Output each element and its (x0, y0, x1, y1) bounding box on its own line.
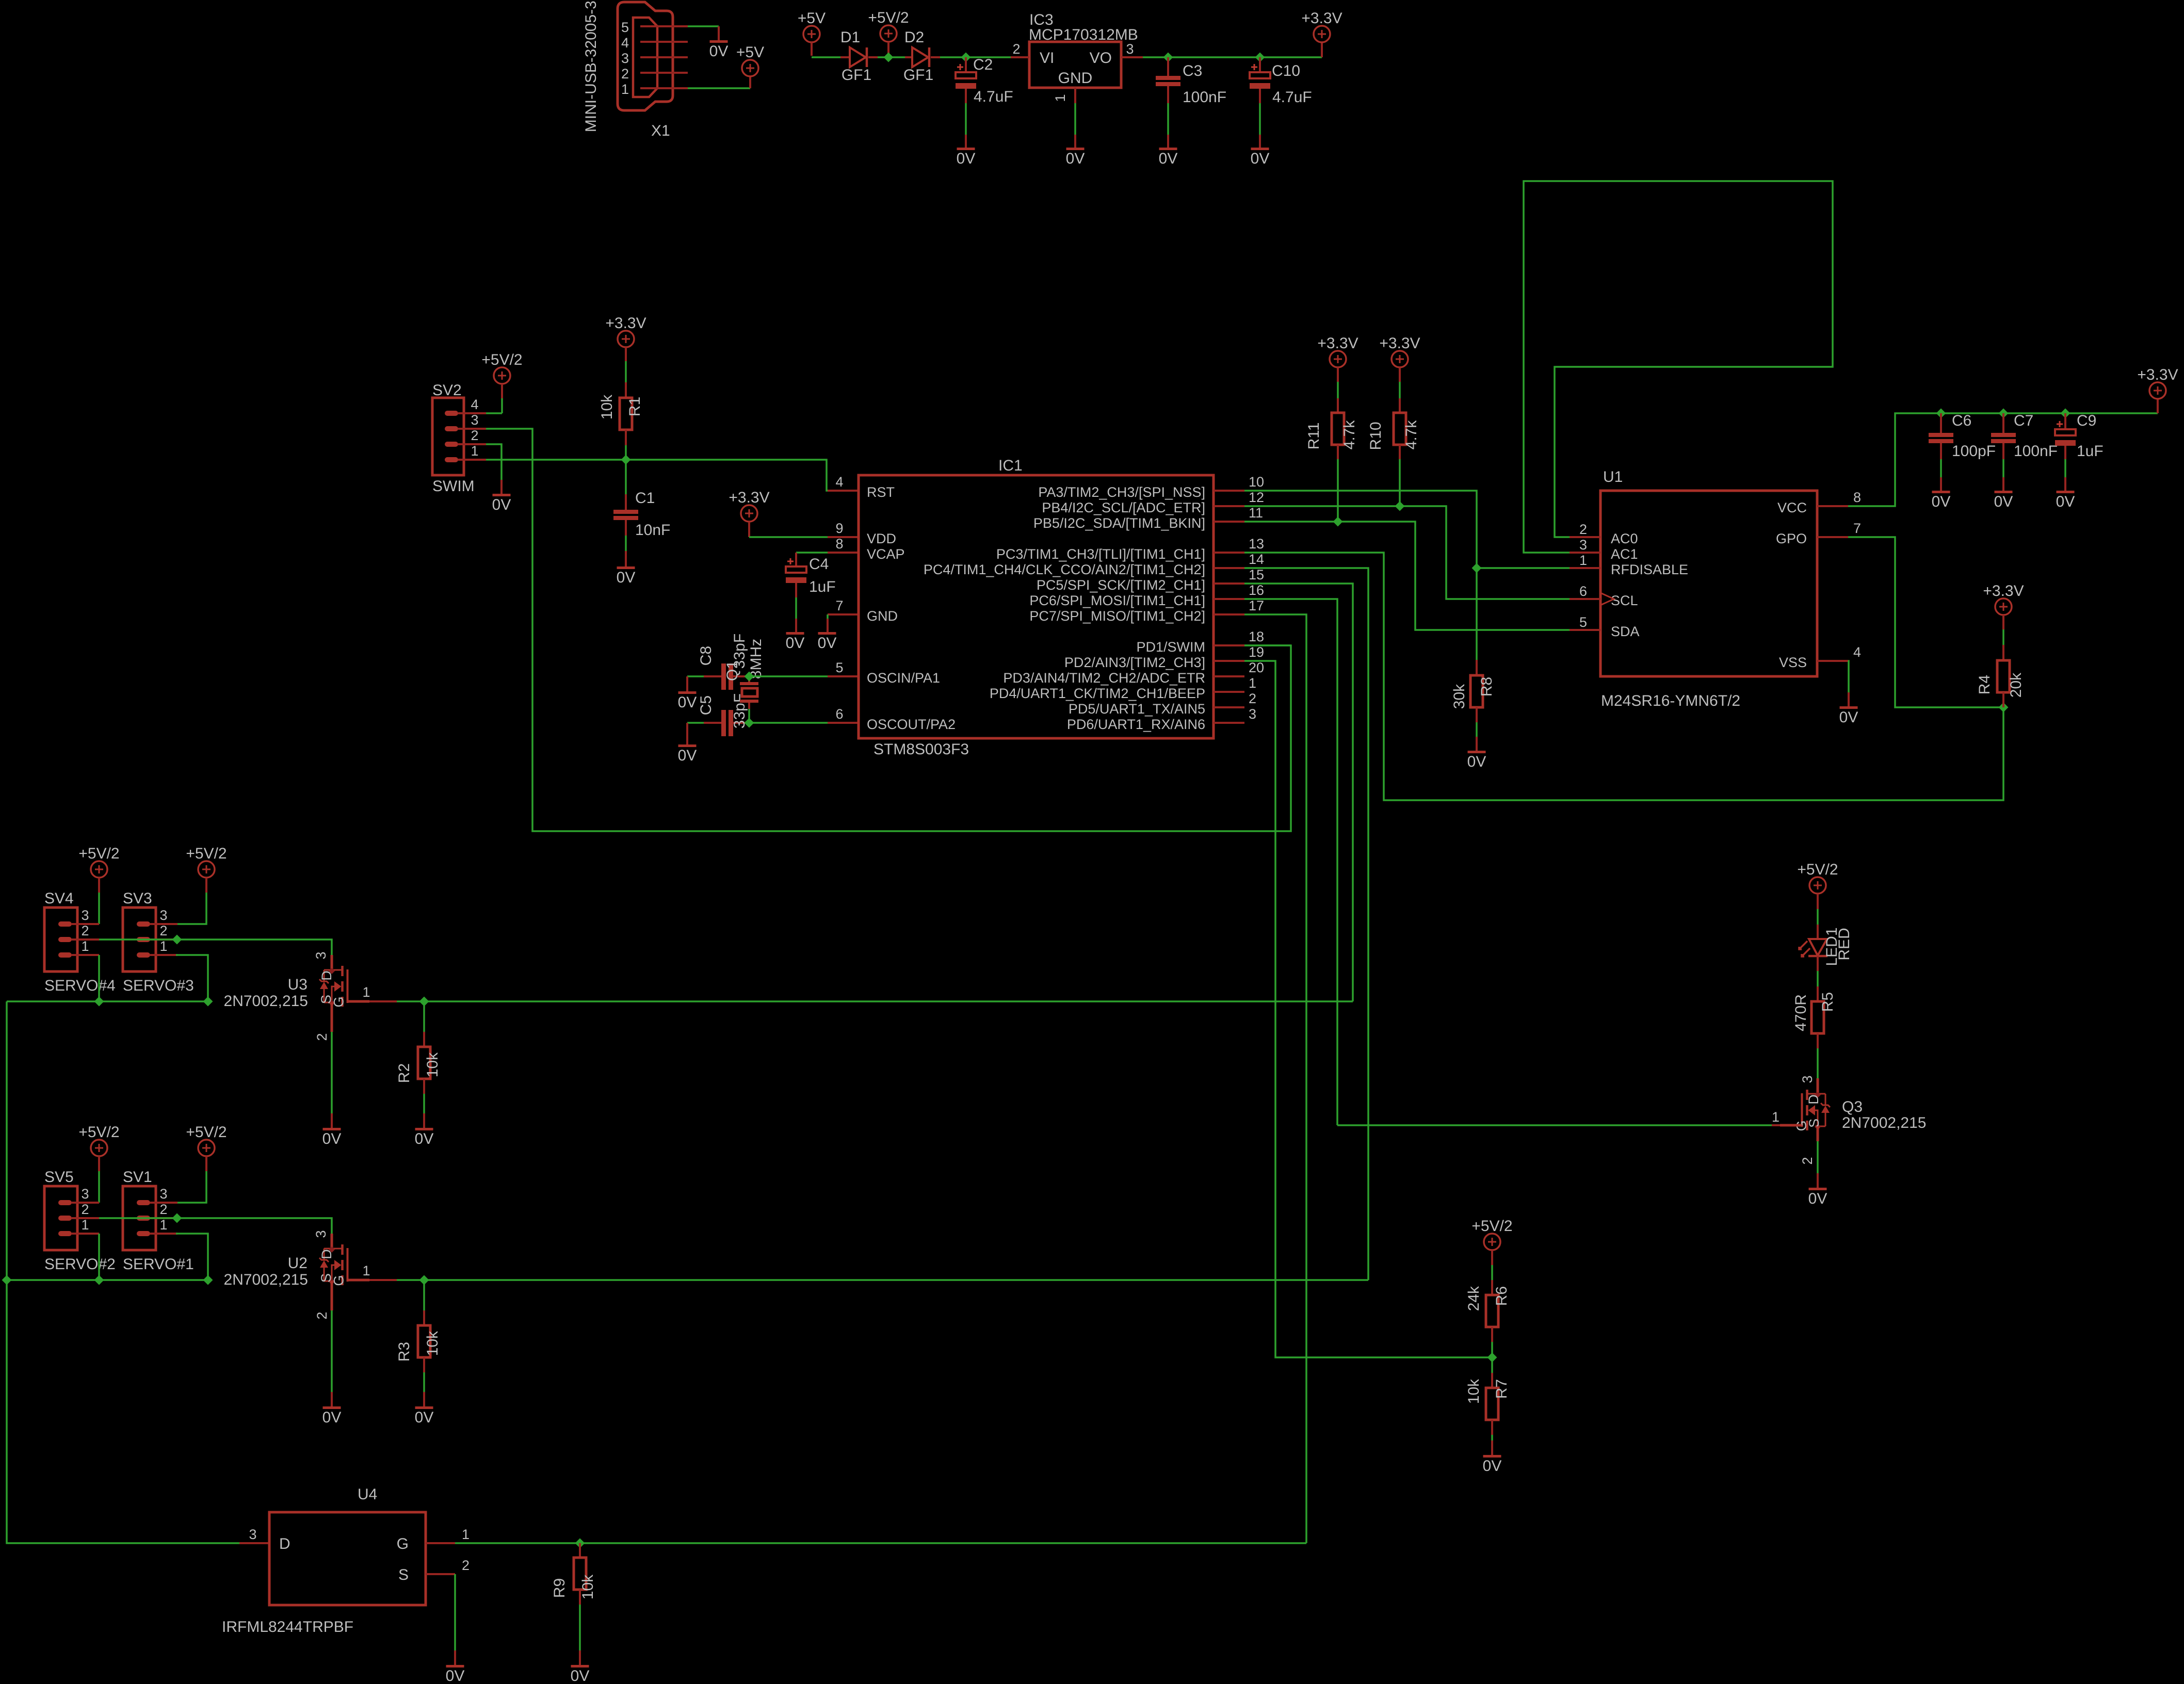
svg-text:20: 20 (1249, 660, 1264, 675)
wire X1 pin1 to +5V (688, 87, 750, 89)
svg-text:Q3: Q3 (1842, 1098, 1863, 1115)
connector SV2 SWIM (432, 398, 464, 475)
svg-text:6: 6 (1579, 584, 1587, 599)
svg-text:GPO: GPO (1776, 531, 1807, 546)
svg-text:4: 4 (835, 474, 843, 490)
svg-text:+3.3V: +3.3V (605, 315, 646, 332)
svg-text:10nF: 10nF (635, 522, 670, 539)
ground 0V below R8 (1468, 751, 1486, 753)
svg-text:IC1: IC1 (998, 457, 1023, 474)
resistor R1 10k (625, 382, 627, 398)
junction C3 node (1163, 53, 1173, 62)
svg-text:20k: 20k (2008, 672, 2025, 698)
svg-text:D1: D1 (840, 29, 860, 46)
svg-text:0V: 0V (678, 694, 697, 711)
junction SV4 pin1 net (94, 997, 104, 1007)
svg-text:M24SR16-YMN6T/2: M24SR16-YMN6T/2 (1601, 692, 1740, 709)
svg-text:2: 2 (1800, 1157, 1815, 1164)
svg-text:0V: 0V (818, 635, 837, 652)
capacitor C1 10nF (625, 460, 627, 494)
SV2 pin 3 (445, 426, 458, 431)
svg-text:470R: 470R (1792, 994, 1809, 1031)
svg-text:VI: VI (1040, 50, 1054, 67)
svg-text:SCL: SCL (1611, 593, 1638, 608)
svg-text:1: 1 (362, 984, 370, 1000)
svg-text:0V: 0V (1251, 150, 1270, 167)
SV2 pin 1 (445, 457, 458, 462)
capacitor C3 100nF (1167, 57, 1169, 76)
junction C7 node (1999, 409, 2009, 418)
junction SV3 pin2 (172, 935, 182, 945)
svg-text:3: 3 (249, 1527, 256, 1542)
connector SV1 SERVO#1 (123, 1186, 156, 1250)
SV2 pin 4 (445, 411, 458, 416)
ground 0V below R2 (415, 1128, 433, 1130)
svg-text:1: 1 (471, 443, 478, 459)
NFC IC U1 M24SR16-YMN6T/2 body (1600, 491, 1817, 676)
svg-text:PD5/UART1_TX/AIN5: PD5/UART1_TX/AIN5 (1069, 701, 1205, 717)
svg-text:D: D (319, 1249, 334, 1259)
wire servo row2 gnd-switch net (7, 1279, 208, 1281)
svg-text:D: D (319, 970, 334, 981)
svg-text:SV5: SV5 (44, 1169, 74, 1186)
svg-text:0V: 0V (1808, 1190, 1827, 1207)
wire servo row1 signal to U3 drain (99, 940, 332, 955)
svg-text:4.7k: 4.7k (1341, 420, 1358, 450)
wire SV4 pin1 down to gnd-switch net (98, 955, 100, 1001)
supply +3.3V right of C10 (1321, 42, 1323, 57)
svg-text:+5V/2: +5V/2 (481, 351, 522, 368)
ground 0V below R3 (415, 1406, 433, 1409)
svg-text:S: S (398, 1566, 409, 1583)
wire U1 AC1 antenna loop (1524, 181, 1833, 553)
svg-text:C1: C1 (635, 490, 655, 507)
svg-text:2: 2 (1579, 522, 1587, 537)
svg-text:2: 2 (471, 428, 478, 443)
LED LED1 RED (1817, 925, 1819, 939)
svg-text:SV4: SV4 (44, 890, 74, 907)
svg-text:3: 3 (313, 1230, 329, 1238)
svg-text:8: 8 (1853, 490, 1861, 505)
svg-text:2: 2 (159, 1202, 167, 1217)
junction R2 gate node (419, 997, 429, 1007)
svg-text:2: 2 (81, 923, 89, 938)
junction C2 node (961, 53, 971, 62)
svg-text:R5: R5 (1819, 992, 1836, 1012)
junction R3 gate node (419, 1275, 429, 1285)
ground 0V below C8 (686, 676, 688, 691)
svg-text:C2: C2 (973, 56, 993, 73)
svg-text:10k: 10k (424, 1331, 441, 1356)
svg-text:0V: 0V (678, 747, 697, 764)
wire U3 gate to R2 node and PC5 line (397, 1000, 1353, 1002)
junction RST node at R1/C1 (621, 455, 631, 465)
svg-text:4.7k: 4.7k (1403, 420, 1420, 450)
resistor R11 4.7k (1337, 398, 1339, 413)
svg-text:PC4/TIM1_CH4/CLK_CCO/AIN2/[TIM: PC4/TIM1_CH4/CLK_CCO/AIN2/[TIM1_CH2] (924, 562, 1205, 577)
svg-text:2: 2 (462, 1558, 470, 1573)
svg-text:19: 19 (1249, 644, 1264, 660)
svg-text:PB4/I2C_SCL/[ADC_ETR]: PB4/I2C_SCL/[ADC_ETR] (1042, 500, 1205, 515)
svg-text:7: 7 (835, 598, 843, 613)
ground 0V below IC1 GND (818, 632, 836, 635)
svg-text:4: 4 (621, 35, 629, 51)
supply +3.3V above R10 (1392, 351, 1408, 367)
wire SV5 pin1 down (98, 1234, 100, 1280)
svg-text:2: 2 (81, 1202, 89, 1217)
resistor R2 10k (423, 1001, 425, 1032)
U4 pin 1 G (426, 1542, 455, 1544)
svg-text:+5V: +5V (798, 10, 826, 27)
svg-text:+3.3V: +3.3V (729, 489, 769, 506)
svg-text:3: 3 (471, 412, 478, 428)
svg-text:R2: R2 (396, 1063, 413, 1083)
svg-text:0V: 0V (571, 1667, 590, 1684)
svg-text:X1: X1 (651, 122, 670, 139)
svg-text:+5V/2: +5V/2 (78, 1124, 119, 1141)
transistor U3 2N7002,215 (331, 955, 333, 969)
svg-text:RST: RST (867, 484, 895, 500)
supply +5V/2 above SV5 (91, 1140, 107, 1156)
svg-text:D: D (1806, 1094, 1821, 1105)
junction R9 node (575, 1539, 585, 1548)
capacitor C2 4.7uF (965, 57, 967, 72)
svg-text:AC0: AC0 (1611, 531, 1638, 546)
svg-text:OSCOUT/PA2: OSCOUT/PA2 (867, 717, 956, 732)
ground 0V below C10 (1251, 148, 1269, 150)
wire pin18 PD1/SWIM stub (1244, 644, 1291, 646)
connector SV4 SERVO#4 (44, 908, 77, 971)
svg-text:R11: R11 (1305, 423, 1322, 450)
svg-text:0V: 0V (957, 150, 976, 167)
svg-text:SERVO#3: SERVO#3 (123, 977, 194, 994)
svg-text:30k: 30k (1451, 684, 1468, 709)
wire pin17 PC7 to U4 gate net (1244, 614, 1306, 1543)
U1 right pin stubs (1817, 505, 1848, 507)
resistor R8 30k (1476, 660, 1478, 675)
svg-text:10: 10 (1249, 474, 1264, 490)
resistor R7 10k (1491, 1357, 1493, 1373)
diode D2 GF1 (905, 56, 912, 58)
svg-text:0V: 0V (446, 1667, 465, 1684)
wire pin15 PC5 to servo row1 gate net (1244, 584, 1353, 1001)
junction SV1 pin1 net (203, 1275, 213, 1285)
capacitor C10 4.7uF (1259, 57, 1261, 72)
svg-text:VSS: VSS (1779, 655, 1807, 670)
wire pin13 PC3 to GPO/R4 net (1244, 553, 2003, 800)
svg-text:12: 12 (1249, 490, 1264, 505)
svg-text:0V: 0V (1159, 150, 1178, 167)
junction R4 node (1999, 703, 2009, 713)
svg-text:3: 3 (621, 51, 629, 66)
svg-text:1: 1 (362, 1263, 370, 1278)
svg-text:PD4/UART1_CK/TIM2_CH1/BEEP: PD4/UART1_CK/TIM2_CH1/BEEP (990, 686, 1205, 701)
ground 0V below SV2 (493, 494, 511, 496)
svg-text:+3.3V: +3.3V (1379, 335, 1420, 352)
svg-text:3: 3 (159, 908, 167, 923)
transistor Q3 2N7002,215 (1817, 1078, 1819, 1093)
svg-text:2: 2 (1249, 691, 1256, 706)
svg-text:1: 1 (1579, 553, 1587, 568)
svg-text:9: 9 (835, 521, 843, 536)
svg-text:R4: R4 (1976, 675, 1993, 694)
connector SV3 SERVO#3 (123, 908, 156, 971)
svg-text:R9: R9 (551, 1578, 568, 1598)
wire SV2 pin2 to ground (486, 444, 501, 480)
wire pin16 PC6 to Q3 gate net (1244, 599, 1337, 1125)
svg-text:0V: 0V (415, 1130, 434, 1147)
svg-text:SWIM: SWIM (432, 478, 475, 495)
wire pin19 PD2 to R6/R7 divider (1244, 661, 1492, 1357)
wire pin14 PC4 to servo row2 gate net (1244, 568, 1368, 1280)
svg-text:8: 8 (835, 536, 843, 552)
resistor R3 10k (423, 1280, 425, 1310)
svg-text:U2: U2 (288, 1255, 308, 1272)
svg-text:PD2/AIN3/[TIM2_CH3]: PD2/AIN3/[TIM2_CH3] (1064, 655, 1205, 670)
svg-text:SDA: SDA (1611, 624, 1640, 639)
svg-text:MINI-USB-32005-301: MINI-USB-32005-301 (583, 0, 600, 132)
ground 0V below IC3 (1066, 148, 1085, 150)
ground 0V below C7 (1995, 491, 2013, 493)
ground 0V below C9 (2057, 491, 2075, 493)
svg-text:D: D (279, 1535, 290, 1552)
junction C10 node (1255, 53, 1265, 62)
wire VDD (749, 536, 828, 538)
wire SV2 pin3 SWIM net down (486, 429, 1291, 831)
svg-text:1: 1 (1772, 1109, 1779, 1125)
svg-text:PD1/SWIM: PD1/SWIM (1136, 639, 1205, 655)
wire U4 gate net to IC1 pin17 (455, 1542, 1306, 1544)
svg-text:VCC: VCC (1777, 500, 1807, 515)
ground 0V below VSS (1840, 706, 1858, 709)
ground 0V below U3 (323, 1128, 341, 1130)
regulator IC3 MCP170312MB (1029, 42, 1121, 88)
svg-text:2: 2 (1012, 41, 1020, 57)
svg-text:C7: C7 (2014, 412, 2033, 429)
svg-text:SV1: SV1 (123, 1169, 152, 1186)
ground 0V below C4 (786, 632, 804, 635)
junction C9 node (2061, 409, 2070, 418)
capacitor C5 33pF (721, 710, 726, 736)
svg-text:1: 1 (159, 938, 167, 954)
capacitor C9 1uF (2064, 413, 2066, 429)
diode D1 GF1 (840, 56, 850, 58)
svg-text:0V: 0V (617, 569, 636, 586)
svg-text:2N7002,215: 2N7002,215 (1842, 1114, 1926, 1131)
svg-text:1: 1 (1053, 94, 1068, 102)
svg-text:+3.3V: +3.3V (2137, 366, 2178, 383)
svg-text:0V: 0V (1994, 493, 2013, 510)
svg-text:2N7002,215: 2N7002,215 (224, 1271, 308, 1288)
svg-text:SV2: SV2 (432, 382, 462, 399)
svg-text:+3.3V: +3.3V (1983, 582, 2024, 600)
capacitor C7 100nF (2002, 413, 2004, 433)
ground 0V at X1 (710, 40, 728, 43)
svg-text:2: 2 (621, 66, 629, 82)
junction +5V/2 node (884, 53, 894, 62)
capacitor C6 100pF (1940, 413, 1942, 433)
svg-text:3: 3 (81, 1186, 89, 1202)
X1 pin 4 (640, 41, 688, 43)
X1 pin 3 (640, 56, 688, 58)
svg-text:14: 14 (1249, 552, 1264, 567)
ground 0V below C5 (686, 723, 688, 744)
svg-text:+5V/2: +5V/2 (1797, 861, 1838, 878)
IC1 right pin stubs and numbers (1214, 490, 1244, 492)
wire U1 GPO to R4 node (1848, 537, 2003, 707)
svg-text:24k: 24k (1465, 1286, 1482, 1311)
svg-text:0V: 0V (1066, 150, 1085, 167)
ground 0V below C3 (1159, 148, 1177, 150)
wire SV2 pin4 to +5V/2 (486, 412, 502, 414)
wire pin10 PA3 to RFDISABLE and R8 (1244, 491, 1477, 675)
junction RFDISABLE node (1472, 563, 1482, 573)
wire to OSCOUT pin 6 (749, 722, 828, 724)
svg-text:G: G (331, 996, 347, 1007)
svg-text:3: 3 (313, 951, 329, 959)
wire to OSCIN pin 5 (749, 675, 828, 677)
svg-text:+5V/2: +5V/2 (78, 845, 119, 862)
svg-text:SERVO#4: SERVO#4 (44, 977, 116, 994)
svg-text:13: 13 (1249, 536, 1264, 552)
svg-text:5: 5 (835, 660, 843, 675)
wire X1 pin5 to ground (688, 25, 719, 27)
wire U1 VSS to ground (1848, 661, 1849, 692)
IC3 pin 1 GND (1074, 88, 1076, 103)
resistor R9 10k (579, 1543, 581, 1558)
svg-text:PC7/SPI_MISO/[TIM1_CH2]: PC7/SPI_MISO/[TIM1_CH2] (1029, 608, 1205, 624)
wire far-left gnd-switch vertical to U4 drain (7, 1001, 239, 1543)
svg-text:+5V: +5V (736, 44, 764, 61)
svg-text:10k: 10k (1465, 1379, 1482, 1404)
svg-text:R8: R8 (1478, 677, 1495, 697)
svg-text:4: 4 (471, 397, 478, 412)
supply +5V/2 above SV1 (198, 1140, 215, 1156)
svg-text:U1: U1 (1603, 468, 1623, 485)
supply +3.3V above R4 (1995, 598, 2012, 615)
svg-text:IRFML8244TRPBF: IRFML8244TRPBF (222, 1618, 353, 1636)
svg-text:0V: 0V (415, 1409, 434, 1426)
ground 0V below C6 (1932, 491, 1950, 493)
svg-text:SV3: SV3 (123, 890, 152, 907)
supply +5V/2 (880, 25, 897, 42)
ground 0V below U2 (323, 1406, 341, 1409)
junction C6 node (1936, 409, 1946, 418)
svg-text:R10: R10 (1367, 422, 1384, 450)
ground 0V below U4 source (446, 1665, 464, 1667)
svg-text:11: 11 (1249, 505, 1263, 521)
svg-text:OSCIN/PA1: OSCIN/PA1 (867, 670, 940, 686)
svg-text:1: 1 (462, 1527, 470, 1542)
svg-text:2N7002,215: 2N7002,215 (224, 993, 308, 1010)
svg-text:1uF: 1uF (2077, 443, 2104, 460)
svg-text:2: 2 (314, 1311, 330, 1319)
svg-text:PB5/I2C_SDA/[TIM1_BKIN]: PB5/I2C_SDA/[TIM1_BKIN] (1033, 515, 1205, 531)
svg-text:U3: U3 (288, 976, 308, 993)
supply +3.3V above R1 (618, 331, 634, 347)
svg-text:SERVO#2: SERVO#2 (44, 1256, 116, 1273)
junction SV1 pin2 (172, 1213, 182, 1223)
svg-text:1: 1 (621, 82, 629, 97)
ground 0V below Q3 (1809, 1188, 1827, 1190)
svg-text:6: 6 (835, 706, 843, 722)
transistor U2 2N7002,215 (331, 1234, 333, 1248)
resistor R5 470R (1817, 986, 1819, 1001)
wire RFDISABLE to U1 pin 1 (1477, 567, 1570, 569)
svg-text:PC5/SPI_SCK/[TIM2_CH1]: PC5/SPI_SCK/[TIM2_CH1] (1037, 577, 1205, 593)
svg-text:PD3/AIN4/TIM2_CH2/ADC_ETR: PD3/AIN4/TIM2_CH2/ADC_ETR (1003, 670, 1205, 686)
IC1 GND pin wire to ground (828, 613, 859, 616)
wire U2 source to ground (331, 1281, 333, 1310)
svg-text:10k: 10k (598, 394, 616, 419)
MCU IC1 STM8S003F3 body (859, 475, 1214, 738)
svg-text:R3: R3 (396, 1342, 413, 1362)
svg-text:AC1: AC1 (1611, 546, 1638, 562)
svg-text:2: 2 (159, 923, 167, 938)
wire servo row2 signal to U2 drain (99, 1218, 332, 1234)
ground 0V below R7 (1483, 1455, 1501, 1458)
X1 pin 1 (640, 87, 688, 89)
wire D1 to node +5V/2 (878, 56, 905, 58)
svg-text:0V: 0V (2056, 493, 2075, 510)
svg-text:GND: GND (1058, 70, 1093, 87)
svg-text:15: 15 (1249, 567, 1264, 582)
crystal Q1 8MHz (748, 676, 750, 684)
supply +3.3V above R11 (1330, 351, 1346, 367)
svg-text:0V: 0V (1839, 709, 1858, 726)
svg-text:+5V/2: +5V/2 (186, 845, 227, 862)
svg-text:R7: R7 (1493, 1379, 1510, 1399)
svg-text:GF1: GF1 (842, 67, 871, 84)
wire Q3 gate from IC1 pin16 (1337, 1124, 1772, 1126)
supply +5V/2 above LED1 (1809, 877, 1826, 894)
svg-text:RED: RED (1836, 928, 1853, 960)
wire servo row1 gnd-switch net (7, 1000, 208, 1002)
supply +5V/2 above SV2 (494, 367, 510, 384)
svg-text:1: 1 (159, 1217, 167, 1233)
resistor R4 20k (2002, 645, 2004, 660)
supply +5V/2 above SV3 (198, 861, 215, 878)
svg-text:0V: 0V (786, 635, 805, 652)
svg-text:0V: 0V (1483, 1458, 1502, 1475)
svg-text:STM8S003F3: STM8S003F3 (873, 741, 969, 758)
wire VCC to 3.3V rail (1848, 413, 2158, 506)
svg-text:3: 3 (1579, 537, 1587, 553)
svg-text:RFDISABLE: RFDISABLE (1611, 562, 1688, 577)
svg-text:1: 1 (81, 1217, 89, 1233)
svg-text:18: 18 (1249, 629, 1264, 644)
svg-text:VDD: VDD (867, 531, 896, 546)
IC3 pin 2 VI (1011, 56, 1029, 58)
svg-text:PD6/UART1_RX/AIN6: PD6/UART1_RX/AIN6 (1067, 717, 1205, 732)
resistor R6 24k (1491, 1280, 1493, 1295)
svg-text:C8: C8 (698, 646, 715, 666)
SV2 pin 2 (445, 442, 458, 447)
svg-text:7: 7 (1853, 521, 1861, 536)
junction R11 on SDA net (1333, 517, 1343, 527)
svg-text:C5: C5 (698, 695, 715, 715)
svg-text:PA3/TIM2_CH3/[SPI_NSS]: PA3/TIM2_CH3/[SPI_NSS] (1038, 484, 1205, 500)
svg-text:3: 3 (1249, 706, 1256, 722)
wire U3 source to ground (331, 1002, 333, 1032)
svg-text:0V: 0V (709, 43, 729, 60)
svg-text:G: G (331, 1275, 347, 1286)
svg-text:C4: C4 (809, 556, 829, 573)
supply +5V at X1 (742, 60, 758, 76)
supply +3.3V at VCC rail (2149, 382, 2166, 399)
svg-text:+5V/2: +5V/2 (186, 1124, 227, 1141)
connector SV5 SERVO#2 (44, 1186, 77, 1250)
